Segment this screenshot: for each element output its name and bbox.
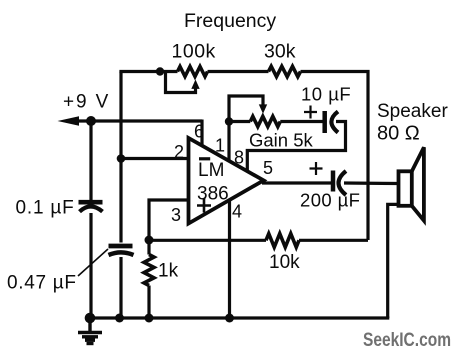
wire pin3 node to 10k bbox=[149, 239, 266, 242]
node junction dot pin4 bottom bbox=[225, 314, 234, 323]
svg-text:10 µF: 10 µF bbox=[301, 84, 351, 105]
svg-text:Frequency: Frequency bbox=[184, 10, 276, 32]
svg-text:80 Ω: 80 Ω bbox=[377, 123, 420, 145]
wire 1k top bbox=[147, 240, 150, 255]
capacitor C 10uF straight plate bbox=[322, 111, 327, 133]
node junction dot pin1/gain bbox=[225, 117, 233, 125]
capacitor C 0.1uF curved plate bbox=[80, 206, 103, 211]
wire output pin 5 bbox=[262, 181, 331, 184]
node junction dot 0.47uF bottom bbox=[115, 314, 124, 323]
wire 10k to corner bbox=[299, 239, 368, 242]
wire 1k bottom bbox=[147, 286, 150, 319]
svg-text:4: 4 bbox=[232, 202, 242, 222]
svg-text:SeekIC.com: SeekIC.com bbox=[363, 329, 451, 351]
leader line 0.47uF bbox=[78, 249, 108, 276]
potentiometer 100k wiper arrowhead bbox=[191, 80, 199, 89]
wire pin 6 drop bbox=[200, 120, 203, 148]
svg-text:Speaker: Speaker bbox=[377, 101, 448, 122]
wire input vertical upper (pot to pin2) bbox=[119, 72, 122, 243]
wire +9V rail bbox=[66, 119, 202, 122]
wire 200uF to speaker bbox=[344, 181, 399, 185]
wire 10uF to pin 8 loop bbox=[247, 122, 345, 172]
potentiometer 100k wiper arm bbox=[166, 73, 196, 93]
svg-text:LM: LM bbox=[198, 160, 224, 181]
wire left vertical lower to ground bbox=[89, 213, 92, 318]
svg-text:5: 5 bbox=[263, 158, 273, 178]
svg-text:0.1 µF: 0.1 µF bbox=[16, 198, 75, 219]
potentiometer 5k wiper arrowhead bbox=[259, 104, 267, 113]
svg-text:3: 3 bbox=[171, 205, 181, 225]
svg-text:1k: 1k bbox=[158, 261, 179, 282]
resistor 30k zigzag bbox=[269, 66, 301, 76]
capacitor C 200uF straight plate bbox=[331, 171, 336, 192]
resistor 5k (gain pot) zigzag bbox=[250, 116, 280, 126]
ground symbol bbox=[78, 318, 102, 344]
wire input vertical lower bbox=[119, 257, 122, 318]
wire 5k to 10uF bbox=[280, 120, 323, 123]
svg-text:0.47 µF: 0.47 µF bbox=[7, 273, 77, 294]
svg-text:Gain 5k: Gain 5k bbox=[249, 130, 314, 151]
resistor 1k zigzag bbox=[144, 255, 154, 286]
svg-text:30k: 30k bbox=[264, 41, 296, 63]
node junction dot 1k bottom bbox=[145, 314, 154, 323]
svg-text:386: 386 bbox=[197, 184, 229, 205]
wire bottom ground rail bbox=[90, 316, 389, 319]
resistor 100k (potentiometer) zigzag bbox=[178, 67, 208, 77]
node junction dot ground bbox=[85, 313, 96, 324]
plus mark 10uF bbox=[304, 106, 317, 119]
wire pin 2 bbox=[121, 157, 189, 160]
op-amp U1 LM386 triangle bbox=[189, 138, 264, 224]
wire left vertical upper (0.1uF branch) bbox=[89, 121, 92, 200]
wire speaker return bbox=[388, 204, 399, 318]
svg-text:10k: 10k bbox=[269, 252, 300, 273]
node junction dot pin2 bbox=[117, 154, 126, 163]
op-amp plus marker bbox=[197, 199, 211, 213]
node junction dot 100k left bbox=[156, 67, 164, 75]
wire pin 1 bbox=[227, 122, 230, 162]
wire top rail right and corner down bbox=[301, 72, 369, 241]
capacitor C 200uF curved plate bbox=[339, 171, 347, 195]
svg-text:8: 8 bbox=[234, 148, 244, 168]
capacitor C 0.47uF curved plate bbox=[109, 252, 134, 255]
wire pin1 dot to 5k bbox=[229, 120, 250, 123]
plus mark 200uF bbox=[310, 162, 323, 175]
svg-text:+9 V: +9 V bbox=[63, 92, 110, 113]
capacitor C 0.47uF top plate bbox=[109, 244, 133, 249]
svg-text:1: 1 bbox=[215, 136, 225, 156]
op-amp inverting bar bbox=[199, 157, 210, 160]
capacitor C 0.1uF top plate bbox=[79, 200, 103, 205]
supply arrow bbox=[58, 116, 80, 126]
speaker LS1 cone bbox=[412, 147, 424, 220]
node junction dot pin3/1k/10k bbox=[145, 236, 154, 245]
resistor 10k zigzag bbox=[266, 234, 299, 248]
capacitor C 10uF curved plate bbox=[331, 112, 338, 133]
svg-text:6: 6 bbox=[194, 122, 204, 142]
wire top rail segment middle bbox=[208, 70, 269, 73]
potentiometer 5k wiper arm bbox=[229, 96, 263, 122]
wire top rail segment left bbox=[119, 70, 177, 73]
svg-text:200 µF: 200 µF bbox=[300, 190, 360, 211]
svg-text:100k: 100k bbox=[172, 41, 216, 63]
speaker LS1 driver box bbox=[399, 171, 412, 206]
node junction dot +9V bbox=[86, 116, 96, 126]
wire pin 3 bbox=[149, 200, 189, 240]
svg-text:2: 2 bbox=[174, 142, 184, 162]
wire pin 4 bbox=[228, 200, 231, 318]
